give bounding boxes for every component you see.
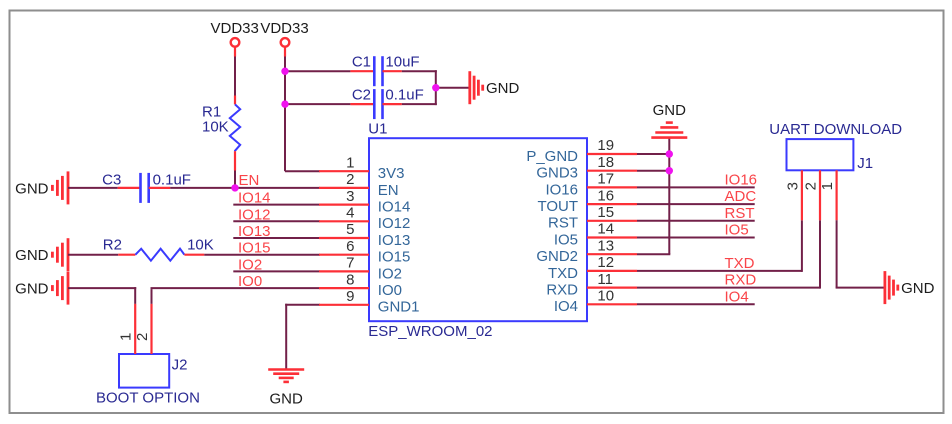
wire pin 18 to gnd rail (637, 170, 670, 172)
svg-text:IO2: IO2 (378, 265, 402, 282)
wire GND to C3 (68, 187, 118, 189)
U1 pin 7 stub (319, 270, 369, 272)
svg-text:10K: 10K (202, 119, 229, 136)
ground symbol (C1 C2) (470, 71, 520, 104)
svg-text:IO16: IO16 (545, 181, 578, 198)
svg-text:10uF: 10uF (385, 54, 419, 71)
U1 pin 19 stub (587, 153, 637, 155)
resistor R1 10K (202, 96, 240, 171)
svg-text:15: 15 (597, 204, 614, 221)
svg-text:IO13: IO13 (378, 232, 411, 249)
connector J2 BOOT OPTION (96, 304, 200, 406)
svg-text:2: 2 (803, 182, 820, 190)
capacitor C2 0.1uF (350, 86, 423, 119)
svg-text:ESP_WROOM_02: ESP_WROOM_02 (368, 323, 492, 340)
wire net IO16 (637, 186, 755, 188)
svg-text:IO12: IO12 (378, 215, 411, 232)
svg-text:IO4: IO4 (554, 298, 578, 315)
svg-text:1: 1 (118, 333, 135, 341)
U1 pin 13 stub (587, 253, 637, 255)
svg-text:11: 11 (597, 271, 613, 288)
svg-text:13: 13 (597, 237, 614, 254)
U1 pin 15 stub (587, 220, 637, 222)
resistor R2 10K (103, 237, 214, 261)
svg-text:R2: R2 (103, 237, 122, 254)
svg-text:14: 14 (597, 221, 614, 238)
connector J1 UART DOWNLOAD (769, 121, 902, 220)
U1 pin 11 stub (587, 287, 637, 289)
svg-text:8: 8 (346, 271, 354, 288)
wire C2 to gnd corner (402, 103, 437, 105)
junction caps GND node (432, 84, 439, 91)
wire C3 to EN node (170, 187, 235, 189)
svg-text:6: 6 (346, 238, 354, 255)
svg-text:GND: GND (653, 102, 687, 119)
svg-text:1: 1 (819, 182, 836, 190)
wire EN node to pin 2 (235, 187, 320, 189)
svg-text:1: 1 (346, 154, 354, 171)
gnd rail vertical (668, 138, 670, 255)
svg-text:9: 9 (346, 288, 354, 305)
wire net ADC (637, 203, 755, 205)
ground symbol (C3) (15, 171, 68, 204)
wire rail to C1 (285, 70, 350, 72)
U1 pin 5 stub (319, 237, 369, 239)
svg-text:IO14: IO14 (378, 199, 411, 216)
svg-text:GND: GND (901, 280, 935, 297)
power symbol VDD33 (right) (260, 20, 308, 57)
ground symbol (R2) (15, 238, 68, 271)
svg-text:18: 18 (597, 154, 614, 171)
wire net IO12 (233, 220, 320, 222)
svg-text:GND2: GND2 (536, 248, 578, 265)
wire J2 pin 2 to IO0 (151, 289, 153, 304)
svg-text:C2: C2 (352, 86, 371, 103)
svg-text:7: 7 (346, 255, 354, 272)
U1 pin 18 stub (587, 170, 637, 172)
junction pin19 gnd node (666, 150, 673, 157)
wire net RST (637, 220, 755, 222)
svg-text:12: 12 (597, 254, 614, 271)
ground symbol (U1 top) (651, 102, 687, 138)
svg-text:IO14: IO14 (238, 190, 271, 207)
svg-text:IO5: IO5 (554, 231, 578, 248)
wire GND to J2 pin 1 (68, 287, 136, 289)
U1 pin 14 stub (587, 236, 637, 238)
U1 pin 9 stub (319, 304, 369, 306)
U1 pin 10 stub (587, 303, 637, 305)
svg-text:RXD: RXD (546, 282, 578, 299)
svg-text:ADC: ADC (725, 188, 757, 205)
svg-text:3: 3 (346, 188, 354, 205)
svg-text:GND: GND (15, 247, 49, 264)
svg-text:RXD: RXD (725, 272, 757, 289)
svg-text:IO15: IO15 (238, 240, 271, 257)
junction rail-C2 node (281, 100, 288, 107)
wire net IO4 (637, 303, 755, 305)
svg-text:TOUT: TOUT (537, 198, 578, 215)
svg-text:BOOT OPTION: BOOT OPTION (96, 389, 200, 406)
svg-text:0.1uF: 0.1uF (153, 171, 191, 188)
wire TXD to J1 pin 3 (637, 270, 802, 272)
svg-text:P_GND: P_GND (526, 148, 578, 165)
svg-text:J1: J1 (857, 155, 873, 172)
wire rail to pin 1 (285, 170, 320, 172)
svg-text:IO12: IO12 (238, 206, 271, 223)
svg-text:TXD: TXD (548, 265, 578, 282)
wire net IO13 (233, 237, 320, 239)
svg-text:0.1uF: 0.1uF (385, 86, 423, 103)
svg-text:2: 2 (346, 171, 354, 188)
U1 pin 12 stub (587, 270, 637, 272)
svg-text:17: 17 (597, 171, 614, 188)
wire C1 to gnd corner (402, 70, 437, 72)
svg-text:IO5: IO5 (725, 222, 749, 239)
wire caps to GND (436, 87, 470, 89)
svg-text:EN: EN (378, 182, 399, 199)
svg-text:C3: C3 (102, 171, 121, 188)
svg-text:U1: U1 (368, 121, 387, 138)
wire GND to R2 (68, 254, 118, 256)
wire RXD to J1 pin 2 (637, 287, 820, 289)
svg-text:4: 4 (346, 205, 354, 222)
capacitor C1 10uF (350, 54, 419, 87)
svg-text:3V3: 3V3 (378, 165, 405, 182)
U1 pin 2 stub (319, 187, 369, 189)
wire pin 19 to gnd rail (637, 153, 670, 155)
svg-text:IO0: IO0 (238, 273, 262, 290)
svg-text:IO2: IO2 (238, 256, 262, 273)
svg-text:GND: GND (15, 281, 49, 298)
U1 pin 6 stub (319, 254, 369, 256)
svg-text:IO13: IO13 (238, 223, 271, 240)
wire pin 9 to GND (285, 304, 320, 306)
wire rail to C2 (285, 103, 350, 105)
wire R1 to EN node (234, 171, 236, 188)
svg-text:VDD33: VDD33 (260, 20, 308, 37)
svg-text:IO0: IO0 (378, 282, 402, 299)
svg-text:GND1: GND1 (378, 299, 420, 316)
svg-text:IO15: IO15 (378, 249, 411, 266)
wire net IO2 (233, 270, 320, 272)
svg-text:10: 10 (597, 288, 614, 305)
svg-text:IO16: IO16 (725, 171, 758, 188)
svg-text:J2: J2 (172, 357, 188, 374)
ground symbol (IO0) (15, 272, 68, 305)
svg-text:GND: GND (15, 180, 49, 197)
U1 pin 4 stub (319, 220, 369, 222)
U1 pin 1 stub (319, 170, 369, 172)
wire net IO14 (233, 204, 320, 206)
ground symbol (J1) (885, 271, 935, 304)
svg-text:RST: RST (548, 215, 578, 232)
power symbol VDD33 (left) (211, 20, 259, 57)
svg-text:RST: RST (725, 205, 755, 222)
junction EN node (231, 184, 238, 191)
op IC U1 ESP_WROOM_02 body (368, 121, 587, 341)
U1 pin 8 stub (319, 287, 369, 289)
wire pin 13 to gnd rail (637, 253, 670, 255)
svg-text:19: 19 (597, 137, 614, 154)
U1 pin 16 stub (587, 203, 637, 205)
U1 pin 3 stub (319, 204, 369, 206)
wire net IO5 (637, 237, 755, 239)
wire VDD33 rail vertical (284, 57, 286, 172)
svg-text:IO4: IO4 (725, 288, 749, 305)
junction pin18 gnd node (666, 167, 673, 174)
svg-text:10K: 10K (187, 237, 214, 254)
ground symbol (GND1) (268, 370, 304, 408)
wire VDD33 to R1 (234, 57, 236, 96)
junction rail-C1 node (281, 68, 288, 75)
svg-text:VDD33: VDD33 (211, 20, 259, 37)
wire R2 to pin 6 (204, 254, 320, 256)
svg-text:GND3: GND3 (536, 165, 578, 182)
svg-text:GND: GND (270, 391, 304, 408)
svg-text:TXD: TXD (725, 255, 755, 272)
svg-text:UART DOWNLOAD: UART DOWNLOAD (769, 121, 902, 138)
svg-text:3: 3 (784, 182, 801, 190)
svg-text:16: 16 (597, 187, 614, 204)
U1 pin 17 stub (587, 186, 637, 188)
svg-text:2: 2 (134, 333, 151, 341)
svg-text:EN: EN (239, 172, 260, 189)
svg-text:C1: C1 (352, 54, 371, 71)
svg-text:5: 5 (346, 221, 354, 238)
svg-text:GND: GND (486, 80, 520, 97)
wire J1 pin 1 to GND (836, 220, 838, 287)
capacitor C3 0.1uF (102, 171, 191, 203)
